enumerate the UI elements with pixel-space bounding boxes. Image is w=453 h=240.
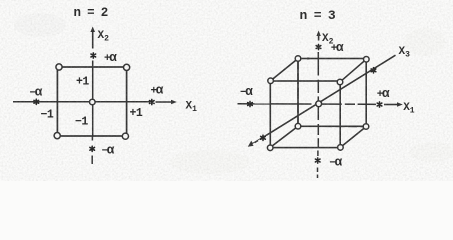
X2 axis inside square [92,67,94,136]
corner point circle BR (n=2) [122,133,128,139]
X2 axis upper arrow (n=3) [316,31,320,41]
background paper [0,0,453,181]
faint scan smudges [14,13,453,174]
hidden bottom-back edge dashed (n=3) [298,125,366,127]
cube center circle [316,101,322,107]
back face of cube (n=3) [298,59,366,127]
X3 axis arrowhead lower-left (n=3) [248,141,255,147]
svg-text:n = 2: n = 2 [74,6,108,20]
X1 axis left segment (n=3) [238,103,271,105]
star point +alpha right (n=2) [150,99,155,104]
X2 axis lower stub (n=2) [91,156,93,165]
X1 arrow segment (n=3) [384,102,403,106]
star point -alpha bottom (n=3) [315,158,320,163]
cube corner circle bottom-front-right [338,145,344,151]
star point on X3 upper (n=3) [371,68,376,73]
X1 axis main line (n=2) [13,101,150,103]
svg-text:−α: −α [30,86,43,100]
cube corner circle bottom-front-left [267,145,273,151]
scan grain overlay [0,0,453,181]
design square (n=2) [57,67,126,136]
cube corner circle top-back-right [364,57,370,63]
star point on X3 lower (n=3) [261,135,266,140]
svg-text:−α: −α [102,144,115,158]
hidden back-left vertical edge dashed (n=3) [297,59,299,127]
svg-text:+α: +α [377,87,390,101]
svg-text:+α: +α [331,41,344,55]
star point -alpha left (n=2) [34,99,39,104]
depth edge bottom-right (n=3) [340,127,366,148]
front face of cube (n=3) [270,81,340,148]
corner point circle BL (n=2) [54,133,60,139]
X3 axis diagonal (n=3) [251,55,396,145]
X2 axis upper arrow (n=2) [90,27,95,49]
center point circle (n=2) [90,99,96,105]
depth edge top-right (n=3) [340,59,366,82]
small arrow mark on top back edge (n=3) [308,57,313,59]
svg-text:+α: +α [104,51,117,65]
corner point circle TL (n=2) [56,64,62,70]
star point +alpha right (n=3) [377,102,382,107]
svg-text:+1: +1 [76,76,89,89]
X2 axis stub above square [92,61,94,68]
scan breaks on X3 tail [252,135,268,147]
star point +alpha top (n=3) [316,44,321,49]
svg-text:−α: −α [240,85,253,99]
svg-text:−1: −1 [41,109,54,122]
svg-text:−1: −1 [75,116,88,129]
depth edge bottom-left (n=3) [270,126,298,147]
star point +alpha top (n=2) [91,53,96,58]
X1 arrow segment (n=2) [156,100,177,104]
X2 axis stub below cube (n=3) [317,151,319,157]
depth edge top-left (n=3) [270,59,298,82]
X1 axis dashed through cube (n=3) [270,103,366,105]
star point -alpha bottom (n=2) [90,146,95,151]
cube corner circle top-front-right [337,79,343,85]
svg-text:n = 3: n = 3 [300,8,336,23]
cube corner circle top-back-left [295,56,301,62]
svg-text:+α: +α [151,84,164,98]
star point -alpha left (n=3) [248,101,253,106]
cube corner circle top-front-left [268,78,274,84]
X2 axis stub below square [91,136,93,141]
cube corner circle bottom-back-left [295,123,301,129]
scan breaks on X1 axis [312,102,358,106]
svg-text:−α: −α [329,156,342,170]
X2 axis lower dashed stub (n=3) [317,168,319,179]
scan breaks on X2 axis [317,76,320,139]
svg-text:+1: +1 [130,107,143,120]
corner point circle TR (n=2) [124,64,130,70]
X1 axis right segment (n=3) [366,103,376,105]
X2 axis dashed through cube (n=3) [317,52,319,148]
cube corner circle bottom-back-right [363,124,369,130]
